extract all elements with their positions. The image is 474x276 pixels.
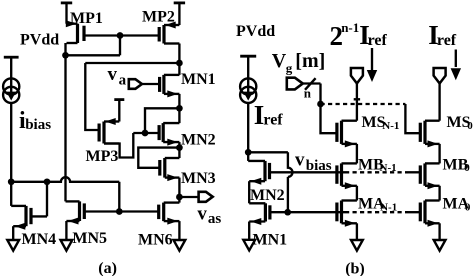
wire MN1 source to ground	[248, 222, 250, 240]
v_as output port	[199, 192, 213, 202]
node dot MN2 gate	[142, 130, 149, 137]
port above MS_N-1	[351, 68, 363, 83]
wire node D to MN6 drain	[178, 197, 180, 203]
transistor MP2 (PMOS mirror)	[162, 25, 165, 44]
wire MP3 drain zigzag to MN2 gate line	[104, 133, 133, 158]
wire gate line down to drain rail	[119, 36, 121, 56]
wire I_ref node to MN2 drain	[247, 152, 249, 161]
wire MS_0 source to MB_0 drain	[438, 144, 440, 164]
MA gate line dashed to MA_0	[345, 211, 408, 213]
node dot MP1 drain	[62, 52, 69, 59]
svg-text:ref: ref	[437, 32, 457, 49]
wire node C jog to MN3 gate	[138, 148, 179, 168]
PVdd stub for i_bias source	[4, 56, 19, 59]
svg-text:0: 0	[465, 201, 471, 213]
wire v_a to MN1 gate	[142, 83, 160, 85]
wire MP1 drain long vertical to MN5 drain	[64, 43, 66, 201]
transistor MA_0	[423, 201, 426, 224]
PVdd stub for MP1	[61, 2, 72, 5]
svg-text:MP2: MP2	[142, 9, 175, 26]
ground MA_N-1	[351, 240, 363, 251]
node dot MN4 drain	[44, 178, 51, 185]
wire MN1 source down to node B	[178, 94, 180, 108]
dashed gate bus MS row	[321, 103, 406, 105]
node B dot (MN1 source / MN2 drain)	[176, 105, 183, 112]
wire MN4 gate to rail	[31, 182, 47, 217]
wire MN1 gate to node dot	[270, 211, 288, 213]
ground MN1 (b)	[243, 240, 255, 251]
svg-text:as: as	[208, 211, 222, 227]
ground MN6	[174, 240, 186, 251]
current arrow 2^n-1 I_ref	[371, 48, 373, 70]
svg-text:MP1: MP1	[70, 10, 103, 27]
svg-text:ref: ref	[263, 112, 283, 129]
wire node A down to MP3 gate	[85, 63, 99, 130]
bias rail with hop over vertical wire	[11, 177, 119, 182]
svg-text:MN4: MN4	[22, 231, 57, 248]
ground MN5	[61, 240, 73, 251]
svg-text:v: v	[295, 150, 305, 171]
transistor MN2	[162, 123, 165, 142]
node A dot (MP2 drain / MN1 drain)	[176, 60, 183, 67]
wire MS_N-1 source to MB_N-1 drain	[356, 144, 358, 164]
svg-text:MN5: MN5	[72, 230, 107, 247]
ground MA_0	[434, 240, 446, 251]
wire MN4 drain up to rail	[10, 182, 12, 206]
transistor MN2 (b)	[263, 161, 266, 181]
v_bias gate line solid	[270, 171, 346, 173]
wire MN4 source to ground	[12, 226, 14, 240]
wire node B jog to MN2 gate dot	[145, 108, 179, 133]
wire MN2 source down to node C	[178, 142, 180, 148]
transistor MN6	[162, 203, 165, 222]
wire node A horizontal	[85, 62, 179, 64]
svg-text:(b): (b)	[345, 260, 365, 276]
transistor MB_N-1	[340, 163, 343, 185]
svg-text:MN6: MN6	[138, 232, 173, 249]
svg-text:[m]: [m]	[295, 50, 325, 72]
svg-text:MN2: MN2	[181, 132, 216, 149]
svg-text:PVdd: PVdd	[20, 32, 59, 49]
transistor MS_N-1	[340, 121, 343, 144]
node dot gate line	[117, 32, 124, 39]
wire port to MS_0 drain	[438, 83, 440, 120]
svg-text:MN2: MN2	[250, 187, 285, 204]
wire MA_N-1 source to ground	[356, 223, 358, 240]
port above MS_0	[434, 68, 446, 83]
node C dot (MN2 source / MN3 drain)	[176, 144, 183, 151]
wire mirror gate line MN5 to MN6	[84, 210, 158, 212]
svg-text:MN3: MN3	[181, 170, 216, 187]
transistor MS_0	[423, 121, 426, 144]
svg-text:0: 0	[467, 120, 473, 132]
current source i_bias	[10, 57, 12, 78]
transistor MN3	[163, 158, 166, 178]
transistor MN1	[162, 75, 165, 94]
wire node A to MN1 drain	[178, 63, 180, 75]
svg-text:bias: bias	[306, 158, 332, 174]
PVdd stub for I_ref source	[240, 55, 256, 58]
svg-text:MN1: MN1	[253, 231, 288, 248]
node dot MN5 gate	[116, 208, 123, 215]
wire MN2 source to MN1 drain	[248, 181, 250, 203]
node D dot (MN3 source / MN6 drain)	[176, 194, 183, 201]
svg-text:a: a	[119, 72, 127, 88]
v_bias gate line dashed to MB_0	[345, 171, 408, 173]
transistor MP1 (PMOS diode)	[76, 24, 79, 43]
V_g[m] input port	[287, 78, 303, 90]
wire MN3 source down to node D	[178, 178, 180, 197]
v_a input port	[129, 79, 142, 89]
transistor MB_0	[423, 163, 426, 185]
node dot MN1 gate line	[284, 209, 291, 216]
svg-text:(a): (a)	[98, 260, 117, 276]
wire MP2 drain down to node A	[178, 44, 180, 64]
node dot i_bias / MN4 gate	[8, 178, 15, 185]
svg-text:bias: bias	[25, 117, 51, 133]
current source I_ref	[247, 56, 249, 78]
transistor MN1 (b)	[264, 203, 267, 221]
wire MS_N-1 gate connection	[321, 104, 337, 133]
wire port to MS_N-1 drain	[356, 83, 358, 120]
MA gate line solid	[288, 211, 345, 213]
wire V_g port to gate bus	[303, 84, 321, 105]
svg-text:v: v	[197, 204, 207, 225]
wire MN6 source to ground	[178, 221, 180, 240]
wire MS_0 gate connection	[405, 104, 420, 133]
svg-text:g: g	[286, 61, 293, 76]
transistor MN4 (diode)	[24, 206, 27, 226]
node dot I_ref / MN2 drain	[245, 149, 252, 156]
wire MB_0 source to MA_0 drain	[438, 186, 440, 201]
PVdd stub for MP3	[114, 98, 124, 101]
wire MA_0 source to ground	[438, 223, 440, 240]
svg-text:V: V	[272, 50, 287, 72]
wire MB_N-1 source to MA_N-1 drain	[356, 186, 358, 201]
transistor MN5	[78, 201, 81, 221]
PVdd stub for MP2	[174, 2, 185, 5]
bus slash	[305, 78, 316, 90]
svg-text:MP3: MP3	[86, 148, 119, 165]
svg-text:v: v	[108, 64, 118, 85]
wire node B to MN2 drain	[178, 108, 180, 123]
transistor MA_N-1	[340, 201, 343, 224]
node dot V_g bus	[317, 101, 324, 108]
svg-text:PVdd: PVdd	[236, 23, 275, 40]
transistor MP3 (PMOS)	[102, 122, 105, 144]
wire MN2 gate line	[133, 132, 159, 134]
svg-text:n-1: n-1	[341, 20, 359, 35]
wire MN5 source to ground	[65, 221, 67, 240]
wire node to MN1 gate with hop over v_bias	[248, 152, 292, 212]
ground MN4	[7, 240, 19, 251]
wire MP1 drain horizontal	[66, 54, 121, 56]
svg-text:N-1: N-1	[382, 120, 399, 132]
svg-text:0: 0	[464, 162, 470, 174]
wire node C to MN3 drain	[178, 148, 180, 158]
svg-text:ref: ref	[368, 32, 388, 49]
wire MP1 gate to MP2 gate	[84, 34, 159, 36]
tick at bus crossing	[354, 98, 360, 100]
svg-text:MN1: MN1	[181, 71, 216, 88]
wire bias rail down to mirror gate line	[118, 182, 120, 212]
wire node D to v_as port	[179, 196, 198, 198]
svg-text:n: n	[304, 86, 312, 101]
current arrow I_ref	[455, 50, 457, 68]
